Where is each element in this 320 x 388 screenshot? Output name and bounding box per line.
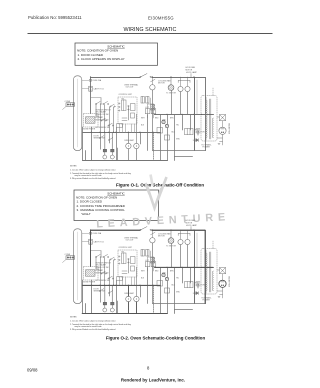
svg-text:NOTES:: NOTES: <box>70 317 77 319</box>
header rule <box>28 33 273 35</box>
bold lamp wires <box>127 285 129 296</box>
svg-text:2. CLOCK APPEARS ON DISPLAY: 2. CLOCK APPEARS ON DISPLAY <box>78 57 125 61</box>
svg-text:may be connected in neutral si: may be connected in neutral side <box>75 325 102 328</box>
bold right rail <box>204 230 206 304</box>
svg-text:Rendered by LeadVenture, Inc.: Rendered by LeadVenture, Inc. <box>121 378 185 383</box>
bold magnetron circle <box>219 280 226 287</box>
watermark flame <box>146 175 167 209</box>
svg-text:1. Circuits: Wire Colors sub: 1. Circuits: Wire Colors subject to chan… <box>70 320 116 323</box>
figure O-2 schematic <box>63 219 231 313</box>
bold top rail <box>91 229 141 231</box>
svg-text:8: 8 <box>147 366 150 371</box>
bold bottom rail <box>82 313 167 315</box>
notes box 2 <box>74 190 159 221</box>
figure O-1 schematic <box>63 66 231 160</box>
svg-text:Figure O-1. Oven Schematic-Off: Figure O-1. Oven Schematic-Off Condition <box>116 182 204 187</box>
svg-text:Figure O-2. Oven Schematic-Coo: Figure O-2. Oven Schematic-Cooking Condi… <box>106 335 206 340</box>
svg-text:3. Why certain Models use th: 3. Why certain Models use the blk lead f… <box>70 328 115 331</box>
notes box 1 <box>75 43 158 65</box>
bold left rail <box>90 230 92 267</box>
svg-text:EI30MH55G: EI30MH55G <box>148 15 174 20</box>
svg-text:Publication No: 5995523411: Publication No: 5995523411 <box>28 15 82 20</box>
bold right mid rail <box>155 266 213 268</box>
svg-text:NOTES:: NOTES: <box>70 166 77 168</box>
bold energized circuit overlay fig O-2 <box>82 230 226 314</box>
svg-text:"HIGH": "HIGH" <box>81 212 91 216</box>
svg-text:3. Why certain Models use th: 3. Why certain Models use the blk lead f… <box>70 177 115 180</box>
notes under figure 1 <box>70 166 131 181</box>
bold left mid rail <box>82 284 160 286</box>
svg-text:09/08: 09/08 <box>27 368 38 373</box>
svg-text:WIRING SCHEMATIC: WIRING SCHEMATIC <box>124 27 177 33</box>
notes under figure 2 <box>70 317 131 332</box>
svg-text:1. Circuits: Wire Colors sub: 1. Circuits: Wire Colors subject to chan… <box>70 169 116 172</box>
svg-text:may be connected in neutral si: may be connected in neutral side <box>75 174 102 177</box>
